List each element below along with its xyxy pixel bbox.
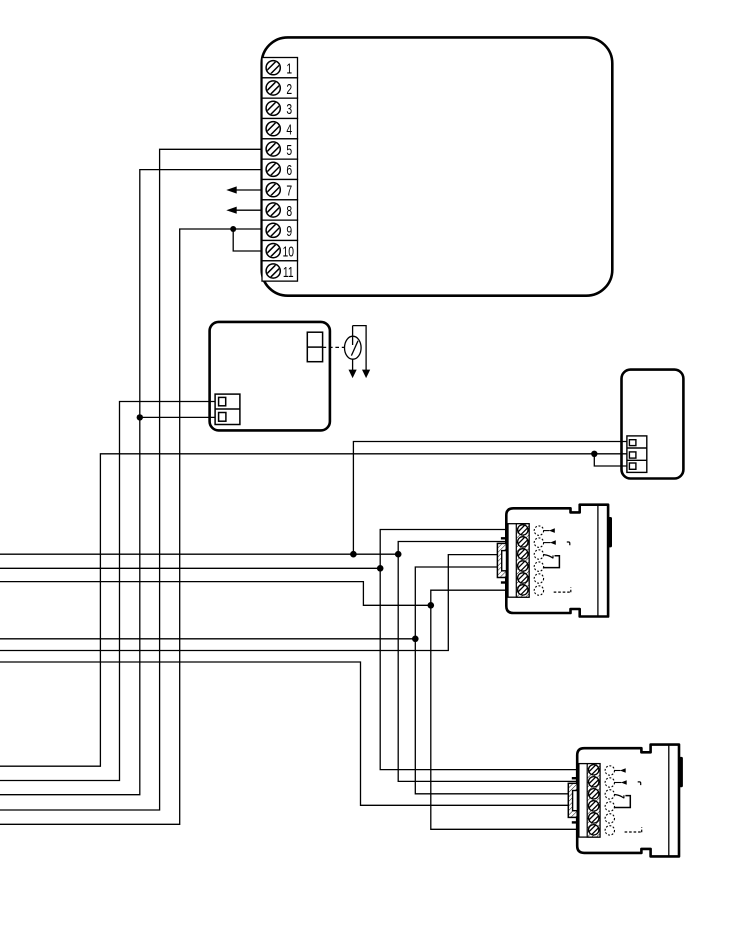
svg-text:10: 10 — [282, 242, 293, 260]
svg-text:2: 2 — [286, 80, 292, 98]
svg-text:11: 11 — [283, 263, 294, 281]
svg-text:5: 5 — [286, 141, 292, 159]
svg-text:7: 7 — [286, 181, 292, 199]
svg-text:1: 1 — [286, 59, 292, 77]
svg-text:3: 3 — [286, 100, 292, 118]
svg-text:4: 4 — [286, 120, 292, 138]
svg-text:8: 8 — [286, 202, 292, 220]
svg-text:9: 9 — [286, 222, 292, 240]
svg-text:6: 6 — [286, 161, 292, 179]
